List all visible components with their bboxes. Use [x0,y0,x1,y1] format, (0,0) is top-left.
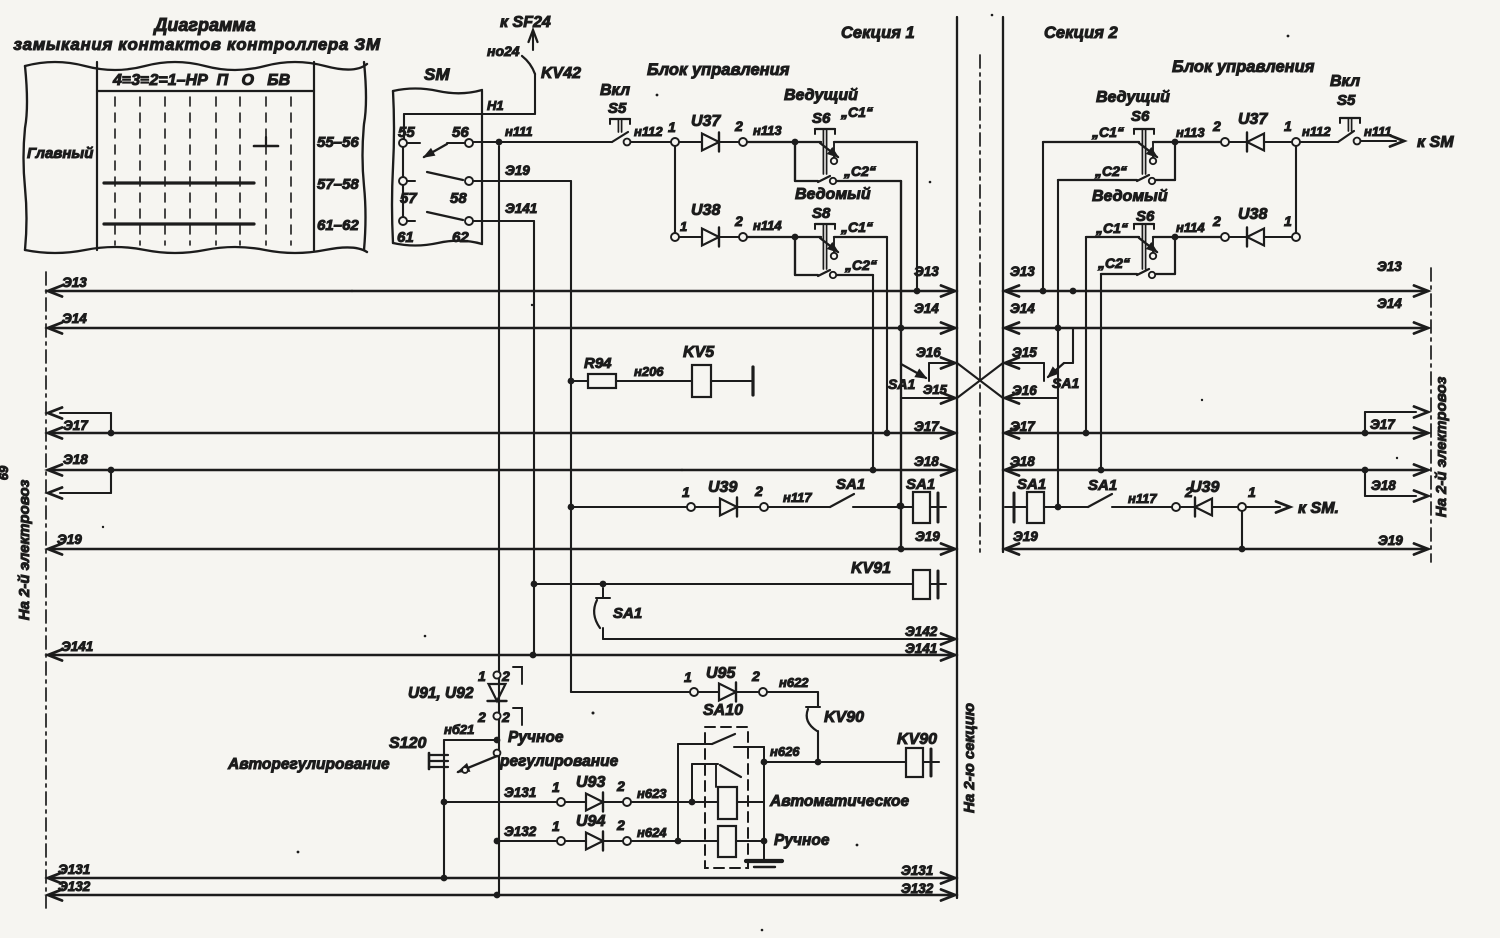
bus Э18 right stub [1362,467,1428,502]
bus Э18 left stub [48,467,114,499]
svg-text:Авторегулирование: Авторегулирование [227,756,390,773]
svg-text:замыкания контактов контроллер: замыкания контактов контроллера ЗМ [13,35,380,54]
svg-text:SA1: SA1 [1017,476,1046,493]
left margin page mark [0,465,11,480]
svg-text:1: 1 [680,219,687,234]
svg-text:2: 2 [616,778,625,794]
svg-text:но24: но24 [487,43,520,59]
diode U39 (sec1) [695,498,760,517]
wire S8-C2 to bus Э18 [870,275,877,473]
svg-text:„C1“: „C1“ [840,104,873,120]
node 2 of U38 (sec2) [1212,213,1229,241]
wire U95 row [571,549,690,692]
bus Э14 section1 [48,301,955,334]
node 2 of U94 [616,817,631,845]
svg-text:1: 1 [478,668,486,684]
label C1 (S6 sec2) [1091,124,1124,140]
svg-text:2: 2 [754,483,763,499]
svg-text:На 2-й электровоз: На 2-й электровоз [1433,376,1450,517]
svg-text:н117: н117 [1128,491,1157,506]
svg-text:61: 61 [397,229,414,246]
left margin dash-dot line [45,272,47,908]
stub Э16 section2 [1005,383,1058,404]
svg-text:KV91: KV91 [851,560,891,577]
svg-text:Блок управления: Блок управления [1172,58,1315,76]
label SA1 (sec1 H117) [836,476,865,493]
bus Э132 section1 [48,879,955,901]
label НО24 [487,43,520,59]
right margin text: На 2-й электровоз [1433,376,1450,517]
wire H622 [767,675,818,706]
label 55 [398,124,415,141]
svg-text:2: 2 [751,668,760,684]
node 2 of U93 [616,778,631,806]
label 61-62 [317,217,359,234]
svg-text:Э141: Э141 [905,641,937,656]
label U94 [576,813,605,830]
svg-text:KV90: KV90 [824,709,864,726]
table header row: controller positions [112,72,290,89]
bus Э13 section2 [1005,259,1428,297]
switch KV90 contact [806,707,820,762]
svg-text:регулирование: регулирование [499,753,619,770]
label S6 (sec1) [812,110,831,127]
svg-text:69: 69 [0,465,11,480]
section 2 boundary line [1002,17,1004,552]
svg-text:Э17: Э17 [1010,419,1036,434]
node 2 of U39 (sec2) [1172,484,1193,511]
svg-text:н113: н113 [753,123,782,138]
switch SA1 (sec1 Э16) [901,364,926,378]
switch S120 [429,750,500,773]
label C1 (S8 sec1) [840,219,873,235]
svg-text:SA1: SA1 [906,476,935,493]
node 1 of U37 (sec2) [1284,118,1300,146]
wire H111 [473,139,612,146]
row label Главный [27,145,93,162]
switch S5 Вкл (section 2) [1338,118,1360,144]
label S5 (sec2) [1337,92,1356,109]
svg-text:Ведомый: Ведомый [795,186,871,203]
label SA1 coil (sec2) [1017,476,1046,493]
wire to SF24 with up arrow [529,30,538,50]
relay coil SA1 (sec1) [900,492,946,523]
label S6 (sec2 leading) [1131,108,1150,125]
switch SA1 (sec2 H117) [1088,494,1172,507]
diodes U91 U92 [488,684,507,701]
svg-text:Э13: Э13 [1010,264,1035,279]
bus Э142 line [603,624,955,645]
wire U39 row (sec1) [571,506,687,508]
label 57-58 [317,176,359,193]
svg-text:55: 55 [398,124,415,141]
svg-text:н622: н622 [779,675,809,690]
svg-text:Э14: Э14 [1010,301,1035,316]
svg-text:„C2“: „C2“ [843,163,876,179]
label H621 [444,722,474,737]
stub Э16 section1 [916,345,955,381]
svg-text:SA1: SA1 [613,605,642,622]
svg-text:57: 57 [400,190,417,207]
label R94 [584,355,612,372]
diode U95 [698,683,759,702]
svg-text:2: 2 [734,118,743,134]
label U37 (sec2) [1238,111,1268,128]
table dashed position columns [115,97,291,245]
wire S6-C1 to bus Э13 [914,142,921,294]
label C2 (S6 sec1) [843,163,876,179]
svg-text:U39: U39 [708,479,737,496]
svg-text:Э131: Э131 [504,785,536,800]
wire S6f-C1 to Э17 (sec2) [1083,237,1090,436]
svg-text:Э13: Э13 [1377,259,1402,274]
svg-text:Э18: Э18 [914,454,939,469]
svg-text:Вкл: Вкл [600,82,630,99]
bus Э17 left stub [48,408,114,437]
node 1/2 above U91 [478,667,522,684]
svg-text:„C1“: „C1“ [840,219,873,235]
svg-text:Э17: Э17 [1370,417,1396,432]
svg-text:Э142: Э142 [905,624,938,639]
contact-closure diagram title [13,15,380,54]
svg-text:к SF24: к SF24 [500,14,551,31]
wire H111 to SM (sec2) [1361,124,1404,147]
relay coil KV91 [913,570,946,599]
label Блок управления (sec2) [1172,58,1315,76]
svg-text:KV5: KV5 [683,344,715,361]
SA10 coil manual [718,826,764,857]
bus Э17 right stub [1362,407,1428,437]
contact diagram table frame [24,62,368,253]
svg-text:U38: U38 [691,202,720,219]
node 2 of U39 (sec1) [754,483,768,511]
svg-text:Ручное: Ручное [774,832,830,849]
wire H114 (sec2) [1176,220,1205,235]
label H111 [505,124,533,139]
svg-text:Э14: Э14 [62,311,87,326]
svg-text:1: 1 [1248,484,1256,500]
label C2 (S6f sec2) [1097,255,1130,271]
label Ведомый (sec1) [795,186,871,203]
svg-text:Э19: Э19 [915,529,940,544]
diode U93 [565,793,623,812]
svg-text:1: 1 [684,669,692,685]
svg-text:KV42: KV42 [541,65,581,82]
label 56 [452,124,469,141]
node 1 of U94 [552,818,565,845]
svg-text:KV90: KV90 [897,731,937,748]
svg-text:Э132: Э132 [504,824,537,839]
svg-text:2: 2 [1212,118,1221,134]
node 1 (sec1) [668,119,679,146]
contact KV42 [522,56,535,74]
label C1 (S6 sec1) [840,104,873,120]
SA10 contact2 feed from Э131 row [689,764,696,805]
resistor R94 [571,374,692,388]
relay coil SA1 (sec2) [1005,492,1088,523]
svg-text:58: 58 [450,190,467,207]
bus Э131 section1 [48,862,955,884]
svg-text:Э18: Э18 [1010,454,1035,469]
svg-text:U93: U93 [576,774,605,791]
label SA1 (sec1 crossover) [888,376,915,392]
contact 55-56 closure mark [254,137,278,146]
SA10 dashed box [705,727,748,868]
diode U38 (sec1) [679,228,739,247]
label Ручное (SA10) [774,832,830,849]
contact 61-62 closure bar [104,222,254,225]
svg-text:Э13: Э13 [62,275,87,290]
svg-text:S5: S5 [608,100,627,117]
svg-text:Ведущий: Ведущий [1096,89,1170,106]
relay coil KV90 [906,748,939,777]
label Ведущий (sec1) [784,87,858,104]
svg-text:нб21: нб21 [444,722,474,737]
label Вкл (S5 sec1) [600,82,630,99]
wire H113 (sec1) [792,139,799,146]
label к SM (sec2) [1417,134,1454,151]
label SA1 (sec2 H117) [1088,477,1117,494]
label SA1 (sec2 crossover) [1052,375,1079,391]
label 62 [452,229,469,246]
node 1 of U95 [684,669,698,696]
SA10 contact 2 (manual) [692,764,741,787]
label SA10 [703,702,743,719]
svg-text:На 2-ю секцию: На 2-ю секцию [961,703,978,813]
label U38 (sec1) [691,202,720,219]
svg-text:U37: U37 [691,113,721,130]
label Вкл (S5 sec2) [1330,73,1360,90]
label U91, U92 [408,685,474,702]
wire H112 [631,141,671,143]
svg-text:S6: S6 [1136,208,1155,225]
section 1 boundary line [956,17,958,898]
wire S6-C2 / Э14 / Э15 riser [898,181,905,552]
section split dash-dot line [979,55,981,552]
label H1 [487,98,504,113]
label Н206 [634,364,664,379]
wire from SM contact 57-58 (Э19) [473,163,574,549]
svg-text:SM: SM [424,65,450,84]
bus Э19 section1 [48,529,955,555]
svg-text:Вкл: Вкл [1330,73,1360,90]
label 55-56 [317,134,359,151]
label U93 [576,774,605,791]
svg-text:U95: U95 [706,665,736,682]
svg-text:57–58: 57–58 [317,176,359,193]
wire H113 (sec2) [1176,125,1205,140]
wire H624 [631,825,718,841]
svg-text:н117: н117 [783,490,812,505]
wire H626 row [761,744,906,765]
svg-text:„C1“: „C1“ [1095,220,1128,236]
svg-text:Э19: Э19 [1378,533,1403,548]
svg-text:Блок управления: Блок управления [647,61,790,79]
bus Э13 section1 [48,264,955,297]
wire H112 (sec2) [1300,124,1338,142]
svg-text:SA1: SA1 [1052,375,1079,391]
switch S8 follower (sec1) [747,224,887,278]
label Секция 2 [1044,24,1118,42]
node1-to-U38 vertical (sec1) [674,146,676,237]
svg-text:1: 1 [682,484,690,500]
wire Э132 row [494,824,557,844]
svg-text:н112: н112 [634,124,663,139]
svg-text:Э141: Э141 [505,201,537,216]
SA10 coil automatic [718,787,764,819]
label C1 (S6f sec2) [1095,220,1128,236]
label 61 [397,229,414,246]
stub Э15 section2 [1005,345,1044,381]
svg-text:Главный: Главный [27,145,93,162]
svg-text:Ведущий: Ведущий [784,87,858,104]
node 2/2 below U92 [477,708,522,725]
SM contact 57-58 [399,172,473,185]
svg-text:н114: н114 [1176,220,1205,235]
label U37 (sec1) [691,113,721,130]
node 2 of U38 (sec1) [734,213,747,241]
svg-text:Э17: Э17 [63,418,89,433]
SM box outline [392,89,482,246]
svg-text:н206: н206 [634,364,664,379]
svg-text:SA1: SA1 [1088,477,1117,494]
svg-text:н114: н114 [753,218,782,233]
svg-text:н626: н626 [770,744,800,759]
wire S8-C1 to bus Э17 [884,237,891,436]
svg-text:R94: R94 [584,355,612,372]
svg-text:к SM.: к SM. [1298,500,1339,517]
svg-text:55–56: 55–56 [317,134,359,151]
label S6 (sec2 follower) [1136,208,1155,225]
svg-text:Секция 2: Секция 2 [1044,24,1118,42]
node1 vertical (sec2) [1295,146,1297,233]
svg-text:Э131: Э131 [901,863,933,878]
contact 57-58 closure bar [104,181,254,184]
svg-text:Э17: Э17 [914,419,940,434]
label Ведущий (sec2) [1096,89,1170,106]
wire Э131 row [444,785,557,802]
label 57 [400,190,417,207]
svg-text:2: 2 [477,709,486,725]
svg-text:U39: U39 [1190,479,1219,496]
node 2 of U37 (sec2) [1212,118,1229,146]
svg-text:Секция 1: Секция 1 [841,24,915,42]
svg-text:SA1: SA1 [888,376,915,392]
svg-text:1: 1 [552,818,560,834]
wire H117 (sec1) [768,490,830,507]
stub Э15 section1 [901,382,955,404]
label U39 (sec2) [1190,479,1219,496]
svg-text:н111: н111 [505,124,533,139]
svg-text:Э132: Э132 [901,881,934,896]
svg-text:Э16: Э16 [1012,383,1037,398]
relay coil KV5 [692,365,753,397]
bus Э19 section2 [1005,529,1428,555]
diode U37 (sec2) [1229,133,1292,152]
label H112 [634,124,663,139]
label 58 [450,190,467,207]
svg-text:Э18: Э18 [63,452,88,467]
svg-text:U38: U38 [1238,206,1267,223]
node 1 of U93 [552,779,565,806]
label U95 [706,665,736,682]
switch S5 Вкл (section 1) [610,119,630,145]
label Секция 1 [841,24,915,42]
svg-text:н623: н623 [637,786,667,801]
wire S6-C1 to Э13 (sec2) [1040,142,1047,294]
bus Э18 section2 [1005,454,1428,493]
node 1 of U39 (sec2) [1238,484,1256,511]
label Автоматическое [769,793,910,810]
svg-text:Э132: Э132 [58,879,91,894]
node 2 of U37 (sec1) [734,118,747,146]
svg-text:U37: U37 [1238,111,1268,128]
svg-text:62: 62 [452,229,469,246]
SA10 contact 1 (auto) [678,734,764,762]
svg-text:„C1“: „C1“ [1091,124,1124,140]
switch S6 leading (sec1) [747,129,917,184]
svg-text:Э14: Э14 [1377,296,1402,311]
ground symbol [746,861,782,867]
node 1 of U38 (sec2) [1284,213,1300,241]
wire H114 (sec1) [792,234,799,241]
node 1 of U38 (sec1) [671,219,687,241]
bus Э14 section2 [1005,296,1428,334]
label SA1 (Э142 switch) [613,605,642,622]
svg-text:H1: H1 [487,98,504,113]
svg-text:Э19: Э19 [505,163,530,178]
svg-text:Э15: Э15 [1012,345,1037,360]
controller SM label [424,65,450,84]
wire H117 (sec2) [1128,491,1157,506]
SM contact 55-56 [399,139,473,157]
svg-text:SA10: SA10 [703,702,743,719]
bus Э141 section1 [48,639,955,661]
label KV91 [851,560,891,577]
SA10 right return wire [761,747,768,860]
svg-text:Э19: Э19 [57,532,82,547]
svg-text:На 2-й электровоз: На 2-й электровоз [16,479,33,620]
svg-text:2: 2 [501,668,510,684]
svg-text:S6: S6 [812,110,831,127]
switch SA1 (sec2 Э15) [1048,288,1076,377]
svg-text:Диаграмма: Диаграмма [152,15,255,35]
svg-text:Автоматическое: Автоматическое [769,793,910,810]
wire H623 [631,786,718,802]
wire S6f-C2 to Э18 (sec2) [1098,274,1105,473]
svg-text:Ручное: Ручное [508,729,564,746]
svg-text:Э15: Э15 [923,382,948,397]
svg-text:SA1: SA1 [836,476,865,493]
svg-text:н112: н112 [1302,124,1331,139]
wire H1 [404,74,535,114]
wire H111 node down to bottom [498,146,500,895]
SM contact 61-62 [399,212,473,225]
label Авторегулирование [227,756,390,773]
label C2 (S8 sec1) [844,257,877,273]
svg-text:61–62: 61–62 [317,217,359,234]
left margin text: На 2-й электровоз [16,479,33,620]
diode U94 [565,832,623,851]
svg-text:Э18: Э18 [1371,478,1396,493]
wire S6-C2 to Э14/Э16 (sec2) [1055,180,1062,507]
svg-text:S8: S8 [812,205,831,222]
switch S6 follower (sec2) [1086,224,1221,278]
svg-text:S6: S6 [1131,108,1150,125]
label KV42 [541,65,581,82]
wire к SM (sec2 U39) [1246,500,1339,517]
svg-text:4≡3≡2=1–НР П О БВ: 4≡3≡2=1–НР П О БВ [112,72,290,89]
